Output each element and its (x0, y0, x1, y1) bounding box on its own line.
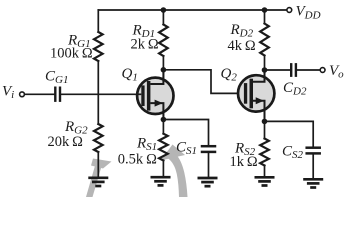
wire Q2 source to RS2 (264, 121, 266, 138)
wire RD1 to Q1 drain (162, 56, 164, 84)
terminal VDD (287, 8, 292, 13)
wire left vertical middle (97, 61, 99, 124)
capacitor CS2 (307, 148, 320, 154)
node Q1 drain (161, 67, 167, 73)
ground (RS1) (151, 177, 171, 185)
grey annotation arrow at RS1 ground (161, 145, 188, 198)
wire left vertical lower lead (97, 152, 99, 177)
ground (RG2) (88, 178, 108, 186)
junction dots (161, 7, 268, 124)
transistor Q2 (238, 70, 274, 121)
ground (RS2) (255, 177, 275, 185)
wire left vertical upper lead (97, 10, 99, 32)
transistor Q1 (136, 70, 174, 120)
svg-text:2k Ω: 2k Ω (131, 36, 159, 52)
ground (CS2) (303, 179, 323, 187)
wire input to CG1 (24, 93, 54, 95)
resistor RG1 (94, 32, 103, 61)
svg-text:20k Ω: 20k Ω (48, 134, 84, 150)
node RD2 top (262, 7, 268, 13)
wire CS1 to ground (208, 153, 210, 177)
capacitor CD2 (291, 64, 296, 75)
grey annotation arrow at RG2 ground (86, 159, 112, 198)
resistor RD1 (159, 25, 168, 57)
wire RS1 to ground (162, 161, 164, 177)
wire Q2 source to CS2 (265, 121, 314, 146)
wire Q2 drain to CD2 (264, 69, 290, 71)
resistor RD2 (260, 24, 269, 56)
svg-text:0.5k Ω: 0.5k Ω (118, 152, 157, 168)
wire Q1 source to RS1 (162, 114, 164, 134)
terminal Vi (20, 92, 25, 97)
wire RD2 top lead (264, 10, 266, 24)
wire CS2 to ground (312, 155, 314, 179)
wire CD2 to Vo terminal (297, 69, 320, 71)
wire CG1 to Q1 gate (61, 93, 141, 95)
wire RD1 top lead (162, 10, 164, 25)
svg-text:1k Ω: 1k Ω (230, 154, 258, 170)
node Q2 drain (262, 67, 268, 73)
node RD1 top (161, 7, 167, 13)
wire Q1 source to CS1 (163, 120, 208, 145)
ground (CS1) (198, 178, 218, 186)
capacitor CS1 (202, 146, 215, 152)
node Q1 source (161, 117, 167, 123)
resistor RG2 (94, 124, 103, 152)
svg-text:100k Ω: 100k Ω (50, 46, 93, 62)
svg-text:4k Ω: 4k Ω (228, 38, 256, 54)
resistor RS2 (260, 139, 269, 166)
capacitor CG1 (55, 88, 60, 101)
wire RD2 to Q2 drain (264, 56, 266, 83)
terminal Vo (320, 68, 325, 73)
wire RS2 to ground (264, 166, 266, 177)
wire interstage Q1 drain to Q2 gate (163, 70, 245, 94)
node Q2 source (262, 119, 268, 125)
resistor RS1 (159, 134, 168, 161)
wire top rail (98, 9, 287, 11)
